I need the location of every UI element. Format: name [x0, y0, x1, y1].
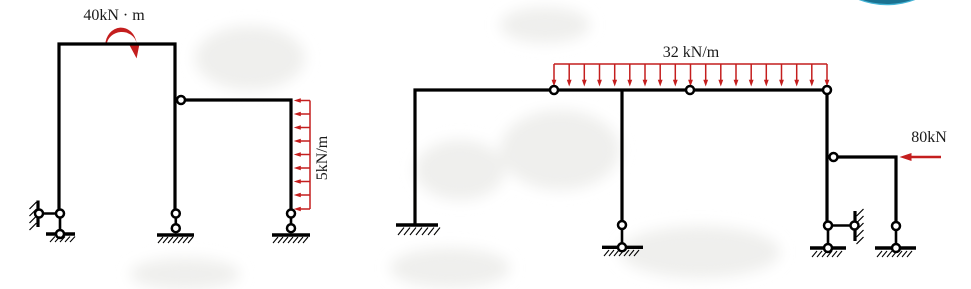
left support wall hinge — [35, 210, 43, 218]
right support B hatching — [877, 251, 912, 257]
right support A ground pin — [824, 244, 832, 252]
middle column support upper hinge — [618, 221, 626, 229]
right frame left column — [413, 89, 416, 226]
distributed load 5kN/m — [294, 98, 310, 211]
right support A vertical link — [827, 226, 830, 249]
left frame top beam — [58, 42, 177, 45]
moment arrow 40kN·m — [105, 28, 139, 59]
cantilever hinge — [830, 153, 838, 161]
far right column — [894, 156, 897, 222]
middle support ground hatching — [158, 237, 193, 243]
left frame right beam — [183, 98, 293, 101]
left support wall — [30, 201, 39, 231]
left support link bar — [39, 212, 60, 215]
right frame middle column — [620, 90, 623, 221]
right support A column hinge — [824, 222, 832, 230]
svg-text:80kN: 80kN — [911, 129, 947, 146]
right support ground hatching — [273, 237, 308, 243]
right support link — [290, 214, 293, 229]
middle support upper hinge — [172, 210, 180, 218]
beam hinge 1 — [550, 86, 558, 94]
right support lower hinge — [287, 224, 295, 232]
right frame top beam — [414, 88, 824, 91]
left frame middle column — [173, 43, 176, 210]
right support upper hinge — [287, 210, 295, 218]
middle column support link — [621, 225, 624, 247]
logo circle (top right, clipped) — [809, 0, 966, 5]
right support A ground bar — [810, 246, 846, 249]
middle column support hatching — [604, 250, 639, 256]
right support A hatching — [812, 251, 842, 257]
left support vertical link — [59, 214, 62, 235]
right support A link bar — [828, 224, 855, 227]
cantilever beam — [837, 155, 898, 158]
right support A wall hinge — [851, 222, 859, 230]
fixed support (left column) — [396, 225, 440, 235]
left support column hinge — [56, 210, 64, 218]
beam hinge 2 — [686, 86, 694, 94]
svg-text:40kN · m: 40kN · m — [83, 7, 145, 24]
left support ground hatching — [50, 237, 75, 243]
middle column support ground bar — [602, 246, 643, 249]
beam end hinge — [823, 86, 831, 94]
left support ground pin — [56, 230, 64, 238]
right support B ground bar — [875, 246, 916, 249]
svg-text:5kN/m: 5kN/m — [314, 135, 331, 180]
right support B upper hinge — [892, 222, 900, 230]
point load arrow 80kN — [900, 153, 942, 161]
right support B link — [895, 226, 898, 248]
hinge on middle column — [177, 96, 185, 104]
middle support ground bar — [157, 233, 194, 236]
left support ground bar — [46, 232, 75, 235]
svg-text:32 kN/m: 32 kN/m — [663, 44, 720, 61]
right frame right column — [825, 93, 828, 221]
middle support lower hinge — [172, 224, 180, 232]
right support ground bar — [272, 233, 310, 236]
right support A: wall — [855, 209, 864, 244]
distributed load 32kN/m — [552, 64, 830, 87]
left frame left column — [57, 43, 60, 210]
left frame right column — [289, 99, 292, 210]
middle support link — [175, 214, 178, 229]
right support B ground pin — [892, 244, 900, 252]
middle column support ground pin — [618, 243, 626, 251]
